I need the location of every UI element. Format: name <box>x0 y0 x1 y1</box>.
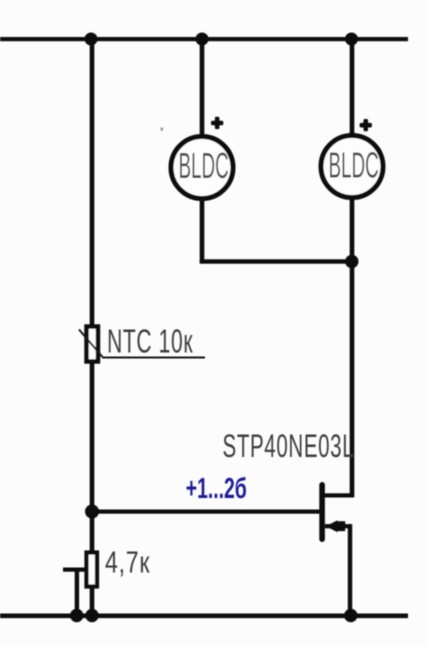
label plus polarity left motor <box>211 117 223 129</box>
label STP40NE03L part number <box>223 428 355 464</box>
wire left BLDC bottom lead <box>200 199 205 263</box>
label +1...2V gate voltage <box>186 473 247 505</box>
node junction bottom resistor <box>85 609 98 622</box>
label BLDC left motor <box>179 146 229 186</box>
node junction bottom right <box>344 609 357 622</box>
wire resistor bottom lead <box>90 586 95 616</box>
wire right BLDC top lead <box>350 39 355 135</box>
wire trimmer tap vertical <box>75 568 79 616</box>
node junction bottom tap <box>70 609 83 622</box>
wire drain horizontal lead <box>323 493 354 497</box>
wire left vertical upper segment <box>90 39 95 325</box>
transistor Q1 source arrow <box>326 520 345 532</box>
resistor R1 4.7k body <box>87 553 98 587</box>
wire right BLDC bottom lead <box>350 198 355 262</box>
wire left vertical middle segment <box>90 361 95 553</box>
svg-text:BLDC: BLDC <box>179 146 229 186</box>
wire bottom ground rail <box>0 614 408 619</box>
svg-text:STP40NE03L: STP40NE03L <box>223 428 355 464</box>
wire motors bottom horizontal <box>200 259 352 263</box>
label plus polarity right motor <box>360 119 372 131</box>
svg-text:+1...2б: +1...2б <box>186 473 247 505</box>
wire top supply rail <box>0 37 408 41</box>
wire source horizontal lead <box>325 524 352 528</box>
svg-text:NTC 10к: NTC 10к <box>107 323 193 360</box>
thermistor RK1 body <box>87 327 99 362</box>
thermistor diagonal stroke with leader line <box>79 330 205 358</box>
wire left BLDC top lead <box>200 39 205 135</box>
node junction motors-drain <box>345 255 358 268</box>
wire trimmer tap horizontal <box>63 568 88 572</box>
label NTC 10k value <box>107 323 193 360</box>
label 4,7k value <box>105 544 150 579</box>
node junction top-middle <box>196 33 209 46</box>
wire drain vertical <box>350 261 355 497</box>
transistor Q1 channel bar <box>319 482 325 542</box>
svg-text:BLDC: BLDC <box>329 146 379 186</box>
wire source vertical <box>348 524 352 616</box>
node junction top-left <box>85 33 98 46</box>
wire gate horizontal <box>92 510 320 514</box>
motor M2 BLDC circle <box>321 136 383 198</box>
artifact speck <box>161 128 163 131</box>
node gate junction on left wire <box>85 505 99 519</box>
svg-text:4,7к: 4,7к <box>105 544 150 579</box>
label BLDC right motor <box>329 146 379 186</box>
motor M1 BLDC circle <box>171 137 233 199</box>
node junction top-right <box>345 33 358 46</box>
